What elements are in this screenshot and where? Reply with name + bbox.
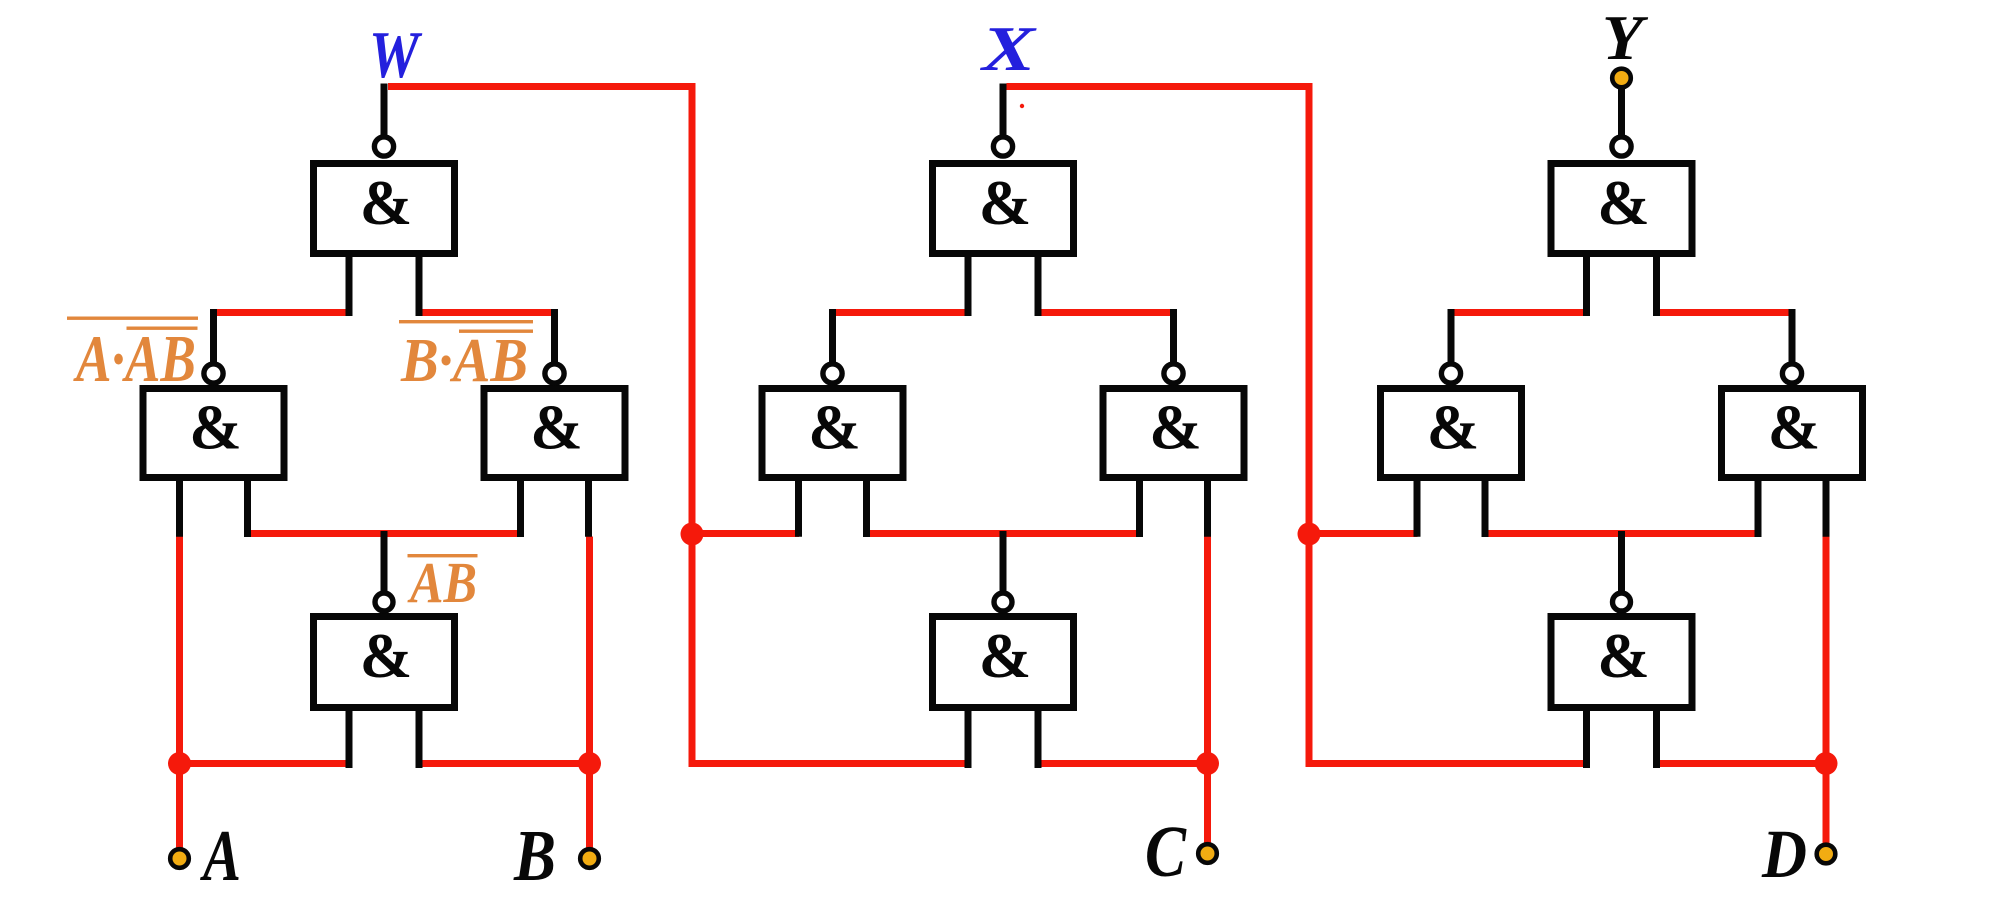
svg-text:&: & bbox=[530, 393, 582, 463]
wire: U3 output lead down from corner bbox=[551, 309, 558, 363]
wire: U7 right input stub bbox=[1204, 481, 1211, 537]
wire: U9 left input stub bbox=[1583, 257, 1590, 316]
U10 output inversion bubble bbox=[1441, 364, 1460, 383]
wire: node B to U4 right input (bottom horizontal right) bbox=[420, 760, 590, 767]
wire: U11 left input stub (from U12 output bus) bbox=[1755, 481, 1762, 537]
svg-text:Y: Y bbox=[1602, 2, 1648, 73]
NAND gate U3 body bbox=[484, 389, 625, 478]
stray red speck artifact bbox=[1020, 104, 1024, 108]
svg-text:&: & bbox=[360, 621, 412, 691]
wire: U2 right input stub (from U4 output bus) bbox=[244, 481, 251, 537]
U6 output inversion bubble bbox=[823, 364, 842, 383]
wire: U1 output lead bbox=[381, 84, 388, 137]
svg-text:&: & bbox=[1427, 393, 1479, 463]
wire: U8 output (WC-bar) bus between U6 and U7 inner inputs bbox=[866, 530, 1140, 537]
svg-text:AB: AB bbox=[407, 550, 477, 615]
wire: U9 right input stub bbox=[1653, 257, 1660, 316]
wire: U5 right input stub bbox=[1035, 257, 1042, 316]
wire: U9 output lead bbox=[1618, 84, 1625, 137]
wire: U7 output lead down from corner bbox=[1170, 309, 1177, 363]
wire: U1 right input stub bbox=[416, 257, 423, 316]
wire: U8 right input stub bbox=[1035, 711, 1042, 768]
U12 output inversion bubble bbox=[1613, 593, 1631, 611]
wire: U5 output lead bbox=[1000, 84, 1007, 137]
wire: input C riser (terminal C up to gate U7 right input) bbox=[1204, 537, 1211, 854]
svg-text:&: & bbox=[979, 621, 1031, 691]
wire: U6 left input stub bbox=[795, 481, 802, 537]
wire: U10 output lead down from corner bbox=[1448, 309, 1455, 363]
wire: U11 output to U9 right input bbox=[1656, 309, 1793, 316]
wire: U4 left input stub bbox=[346, 711, 353, 768]
svg-text:A: A bbox=[200, 815, 241, 896]
svg-text:&: & bbox=[189, 393, 241, 463]
wire: U1 left input stub bbox=[346, 257, 353, 316]
junction net X branch bbox=[1298, 523, 1321, 546]
svg-text:D: D bbox=[1761, 816, 1807, 892]
wire: node A to U4 left input (bottom horizontal left) bbox=[180, 760, 350, 767]
junction node C / U8 input bbox=[1196, 752, 1219, 775]
NAND gate U5 body bbox=[933, 164, 1074, 254]
overbar over whole B-expression bbox=[399, 320, 533, 323]
svg-text:&: & bbox=[1597, 168, 1649, 238]
wire: U8 output lead up to bus bbox=[1000, 531, 1007, 592]
svg-text:&: & bbox=[808, 393, 860, 463]
terminal B bbox=[580, 849, 599, 868]
wire: U2 output to U1 left input bbox=[214, 309, 351, 316]
NAND gate U6 body bbox=[762, 389, 903, 478]
U9 output inversion bubble bbox=[1612, 137, 1631, 156]
svg-text:W: W bbox=[369, 18, 423, 92]
svg-text:&: & bbox=[360, 168, 412, 238]
svg-text:B·AB: B·AB bbox=[400, 327, 528, 395]
terminal A bbox=[170, 849, 189, 868]
wire: U10 output to U9 left input bbox=[1451, 309, 1587, 316]
U4 output inversion bubble bbox=[375, 593, 393, 611]
wire: U3 left input stub (from U4 output bus) bbox=[517, 481, 524, 537]
svg-text:X: X bbox=[980, 13, 1037, 84]
wire: U11 right input stub bbox=[1823, 481, 1830, 537]
NAND gate U2 body bbox=[143, 389, 284, 478]
overbar over AB in A-expression bbox=[127, 327, 198, 330]
terminal Y bbox=[1612, 69, 1631, 88]
NAND gate U8 body bbox=[933, 617, 1074, 708]
wire: U7 left input stub (from U8 output bus) bbox=[1136, 481, 1143, 537]
U8 output inversion bubble bbox=[994, 593, 1012, 611]
wire: U2 output lead down from corner bbox=[210, 309, 217, 363]
overbar over AB label bbox=[408, 554, 478, 557]
NAND gate U7 body bbox=[1103, 389, 1244, 478]
wire: U12 output (XD-bar) bus between U10 and U11 inner inputs bbox=[1485, 530, 1759, 537]
U7 output inversion bubble bbox=[1164, 364, 1183, 383]
wire: output Y lead (terminal Y to U9 bubble) bbox=[1618, 86, 1625, 136]
wire: net X branch to gate U10 left input bbox=[1309, 530, 1418, 537]
junction node D / U12 input bbox=[1815, 752, 1838, 775]
NAND gate U12 body bbox=[1551, 617, 1692, 708]
wire: U12 left input stub bbox=[1583, 711, 1590, 768]
junction node A / U4 input bbox=[168, 752, 191, 775]
U1 output inversion bubble bbox=[374, 137, 393, 156]
wire: U12 right input stub bbox=[1653, 711, 1660, 768]
overbar over AB in B-expression bbox=[459, 330, 533, 333]
terminal D bbox=[1817, 845, 1836, 864]
NAND gate U9 body bbox=[1551, 164, 1692, 254]
wire: U7 output to U5 right input bbox=[1038, 309, 1174, 316]
U11 output inversion bubble bbox=[1782, 364, 1801, 383]
wire: U12 output lead up to bus bbox=[1618, 531, 1625, 592]
wire: U3 output to U1 right input bbox=[420, 309, 556, 316]
wire: U3 right input stub bbox=[585, 481, 592, 537]
junction net W branch bbox=[681, 523, 704, 546]
wire: U4 output (AB-bar) bus between U2 and U3 inner inputs bbox=[247, 530, 521, 537]
NAND gate U4 body bbox=[314, 617, 455, 708]
U5 output inversion bubble bbox=[993, 137, 1012, 156]
wire: U2 left input stub bbox=[176, 481, 183, 537]
wire: U11 output lead down from corner bbox=[1789, 309, 1796, 363]
svg-text:&: & bbox=[1768, 393, 1820, 463]
NAND gate U10 body bbox=[1381, 389, 1522, 478]
wire: U6 right input stub (from U8 output bus) bbox=[863, 481, 870, 537]
terminal C bbox=[1198, 844, 1217, 863]
svg-text:B: B bbox=[513, 815, 556, 896]
wire: input A riser (terminal A up to gate U2 left input) bbox=[176, 537, 183, 859]
wire: U8 left input stub bbox=[965, 711, 972, 768]
wire: node D to U12 right input (bottom horizontal) bbox=[1656, 760, 1826, 767]
U3 output inversion bubble bbox=[545, 364, 564, 383]
wire: node C to U8 right input (bottom horizontal) bbox=[1038, 760, 1208, 767]
overbar over whole A-expression bbox=[67, 317, 198, 320]
NAND gate U11 body bbox=[1722, 389, 1863, 478]
wire: input D riser (terminal D up to gate U11 right input) bbox=[1823, 537, 1830, 854]
wire: U6 output lead down from corner bbox=[829, 309, 836, 363]
wire: U6 output to U5 left input bbox=[833, 309, 970, 316]
wire: input B riser (terminal B up to gate U3 right input) bbox=[586, 537, 593, 859]
wire: U5 left input stub bbox=[965, 257, 972, 316]
wire: U4 output lead up to bus bbox=[381, 531, 388, 592]
wire: U10 left input stub bbox=[1414, 481, 1421, 537]
NAND gate U1 body bbox=[314, 164, 455, 254]
junction node B / U4 input bbox=[578, 752, 601, 775]
U2 output inversion bubble bbox=[204, 364, 223, 383]
wire: U10 right input stub (from U12 output bus) bbox=[1482, 481, 1489, 537]
svg-text:&: & bbox=[1597, 621, 1649, 691]
wire: U4 right input stub bbox=[416, 711, 423, 768]
wire: net W branch to gate U6 left input bbox=[692, 530, 799, 537]
svg-text:&: & bbox=[979, 168, 1031, 238]
svg-text:&: & bbox=[1149, 393, 1201, 463]
svg-text:A·AB: A·AB bbox=[73, 322, 196, 396]
wire: net W trunk from U1 output across and down to second block bottom input bbox=[388, 87, 968, 764]
wire: net X trunk from U5 output across and down to third block bottom input bbox=[1007, 87, 1587, 764]
svg-text:C: C bbox=[1145, 811, 1187, 892]
